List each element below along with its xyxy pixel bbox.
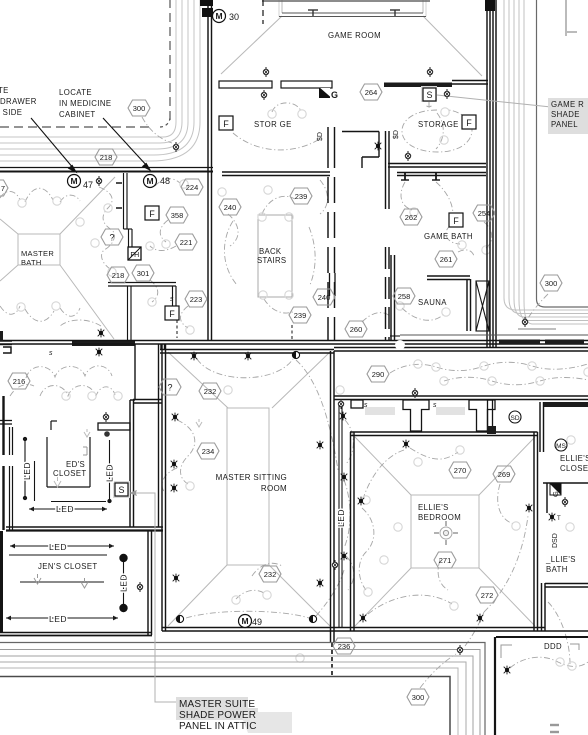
note: game room shade panel (548, 98, 588, 134)
svg-text:BATH: BATH (21, 258, 42, 267)
tag hexagon 240 upper (219, 199, 241, 215)
wire: back stairs chain (262, 196, 295, 214)
svg-text:ED'S: ED'S (66, 460, 85, 469)
jen closet hanger marks (34, 419, 202, 588)
wire: ellie top-left diag chain (364, 450, 404, 496)
game room tray ceiling (221, 0, 482, 76)
master sitting west wall (162, 344, 166, 631)
wire: bath lower arcs (60, 320, 101, 326)
svg-text:ELLIE'S: ELLIE'S (418, 503, 449, 512)
svg-text:SHADE POWER: SHADE POWER (179, 710, 256, 721)
ellie bedroom tray (355, 437, 535, 626)
tag hexagon 260 (345, 321, 367, 337)
svg-text:CABINET: CABINET (59, 110, 96, 119)
svg-text:BATH: BATH (546, 565, 568, 574)
tag hexagon 261 (435, 251, 457, 267)
tag hexagon 300 bottom (407, 689, 429, 705)
ellie bath walls (542, 583, 588, 631)
tag hexagon 358 (166, 207, 188, 223)
wire: sitting room left chain (177, 420, 195, 484)
svg-text:254: 254 (478, 209, 491, 218)
annotation arrow to M47 (31, 118, 76, 172)
svg-text:P DRAWER: P DRAWER (0, 97, 37, 106)
wire: storage-right big loop (402, 110, 472, 152)
svg-text:M: M (146, 176, 153, 186)
wire: 221 to left (150, 246, 176, 251)
svg-text:SHADE: SHADE (551, 110, 580, 119)
svg-text:F: F (466, 118, 472, 128)
master sitting east wall (331, 351, 335, 631)
wire: room216 left arcs (10, 384, 34, 396)
wire: corridor fixtures chain (345, 420, 353, 464)
wire: jen closet dashes (20, 581, 104, 583)
svg-text:LED: LED (105, 464, 115, 482)
F box game bath (449, 213, 463, 227)
meter circle M48 (144, 175, 171, 188)
ellie corridor right stub wall (540, 402, 588, 452)
ellie corridor north wall (334, 396, 588, 400)
svg-text:290: 290 (372, 370, 385, 379)
tag hexagon 264 (360, 84, 382, 100)
note: master suite shade panel (176, 697, 292, 733)
ellie closet columns (351, 400, 496, 434)
svg-text:262: 262 (405, 213, 418, 222)
wire: 260 to sauna wall (362, 313, 390, 322)
svg-text:BACK: BACK (259, 247, 282, 256)
svg-text:FH: FH (130, 252, 139, 259)
game room south header (thick) (384, 83, 452, 88)
sauna north wall (427, 276, 471, 331)
svg-text:LOCATE: LOCATE (59, 88, 92, 97)
svg-text:47: 47 (83, 180, 93, 190)
svg-text:221: 221 (180, 238, 193, 247)
wire: sitting right chain (296, 360, 338, 470)
ellie closet south wall (543, 483, 588, 513)
svg-text:240: 240 (318, 293, 331, 302)
S box ed closet shade (113, 481, 130, 498)
svg-text:272: 272 (481, 591, 494, 600)
svg-text:G: G (551, 491, 560, 497)
tag hexagon 269 (493, 466, 515, 482)
tag hexagon 234 (197, 443, 219, 459)
tag hexagon 300 right (540, 275, 562, 291)
room label: back stairs (257, 247, 286, 265)
ceiling T fixtures on game room tray (308, 10, 400, 16)
right-side shade track lines (game room east) (504, 0, 588, 329)
tag hexagon 300 medicine (128, 100, 150, 116)
meter circle M49 (239, 615, 263, 628)
jen closet south wall (0, 633, 152, 636)
top-left shade track nested lines (0, 0, 200, 161)
connector wall below sitting room (148, 531, 152, 635)
svg-text:STOR GE: STOR GE (254, 120, 292, 129)
svg-text:300: 300 (133, 104, 146, 113)
svg-text:223: 223 (190, 295, 203, 304)
tag hexagon 216 (8, 373, 30, 389)
fixture stars (junction boxes) (104, 142, 561, 675)
room label: ellie bath (545, 555, 576, 574)
svg-text:218: 218 (112, 271, 125, 280)
svg-text:264: 264 (365, 88, 378, 97)
svg-text:SAUNA: SAUNA (418, 298, 447, 307)
wire: room216 closet rod scallops (26, 366, 112, 378)
svg-text:300: 300 (412, 693, 425, 702)
master bath partition walls (108, 173, 292, 341)
ed closet inner lines (47, 421, 90, 487)
back stairs stairwell (258, 215, 292, 297)
LED corridor wall lines (339, 402, 342, 627)
note text: locate in medicine cabinet (59, 88, 111, 119)
svg-text:s: s (49, 350, 53, 357)
svg-text:IN MEDICINE: IN MEDICINE (59, 99, 111, 108)
master bath south wall thick (72, 341, 135, 346)
wiring arcs (dash-dot) (0, 103, 588, 688)
svg-text:G: G (331, 90, 338, 100)
svg-text:MASTER SITTING: MASTER SITTING (216, 473, 287, 482)
svg-text:F: F (223, 119, 229, 129)
svg-text:GAME R: GAME R (551, 100, 584, 109)
svg-text:234: 234 (202, 447, 215, 456)
svg-text:269: 269 (498, 470, 511, 479)
tag hexagon ? sitting (159, 379, 181, 395)
fixture sconces (phi symbols) (96, 67, 568, 655)
tag hexagon 262 (400, 209, 422, 225)
svg-text:358: 358 (171, 211, 184, 220)
wire: master bath big left arcs (0, 191, 20, 200)
F box master bath upper (145, 206, 159, 220)
back stairs north wall (222, 172, 330, 176)
svg-text:48: 48 (160, 176, 170, 186)
svg-text:240: 240 (224, 203, 237, 212)
wire: 240a arc (228, 214, 238, 246)
svg-text:F: F (453, 216, 459, 226)
svg-text:S: S (118, 485, 124, 495)
storage-left inner closet (342, 132, 379, 169)
svg-text:s: s (170, 296, 174, 303)
svg-text:30: 30 (229, 12, 239, 22)
bottom right room west wall (494, 637, 496, 735)
svg-text:216: 216 (13, 377, 26, 386)
wire: ellie bottom arcs (368, 595, 452, 614)
storage-right west wall (386, 131, 390, 341)
svg-text:270: 270 (454, 466, 467, 475)
meter circle M30 (213, 10, 240, 23)
bottom right header dashed (496, 636, 588, 638)
circle MS (555, 439, 567, 451)
svg-text:M: M (241, 616, 248, 626)
wire: bottom 300 hexagon to deck fixture (420, 654, 456, 688)
smoke detector circle SD (509, 411, 521, 423)
ellie ceiling fan (434, 521, 458, 545)
svg-text:236: 236 (338, 642, 351, 651)
wall A: medicine/bath north wall (0, 168, 213, 172)
wire: hexagon 261 tail (458, 250, 474, 256)
west edge walls upper closet area (0, 396, 13, 530)
game room tray bottom double line (279, 13, 426, 17)
wire: 358 area (160, 220, 168, 242)
tag hexagon 258 (393, 288, 415, 304)
svg-text:232: 232 (264, 570, 277, 579)
svg-text:N SIDE: N SIDE (0, 108, 22, 117)
wire: bottom right arcs (510, 657, 588, 668)
tag hexagon 272 (476, 587, 498, 603)
svg-text:239: 239 (295, 192, 308, 201)
svg-text:?: ? (167, 383, 172, 393)
bottom wall sitting + ellie (162, 628, 588, 632)
svg-text:F: F (169, 309, 175, 319)
right-side dark shade line (537, 0, 588, 307)
west edge wall bits at bath (0, 341, 12, 353)
wire: game bath arcs (401, 182, 412, 210)
ed closet shelf bracket (98, 423, 130, 430)
upper band wall y=338/341 right part (390, 335, 588, 344)
tag hexagon 221 (175, 234, 197, 250)
wire: medicine cabinet hexagon 300 to fixture (142, 117, 172, 143)
svg-text:239: 239 (294, 311, 307, 320)
svg-text:GAME BATH: GAME BATH (424, 232, 473, 241)
room label: master sitting room (216, 473, 287, 493)
ghost outlet circles (17, 108, 588, 670)
svg-text:232: 232 (204, 387, 217, 396)
wire: sauna arc (402, 308, 444, 320)
tag hexagon 232 lower (259, 566, 281, 582)
svg-text:271: 271 (439, 556, 452, 565)
room label: ed closet (53, 460, 87, 478)
wire: storage-left loop (272, 103, 301, 112)
connector below sitting east wall (331, 631, 335, 676)
sauna heater chase X-box (476, 281, 489, 331)
sauna / hall west wall (391, 255, 395, 341)
master bath tray (0, 177, 115, 339)
svg-text:MS: MS (556, 443, 566, 450)
jen closet west wall (0, 531, 3, 633)
svg-text:LED: LED (56, 504, 74, 514)
svg-text:LED: LED (22, 462, 32, 480)
ellie north wall (350, 432, 538, 436)
wall vertical main x=210 (208, 0, 212, 341)
master sitting tray (168, 352, 330, 626)
svg-text:49: 49 (252, 617, 262, 627)
svg-text:224: 224 (186, 183, 199, 192)
far right window edge (566, 0, 577, 36)
storage-left / back stairs west wall x=331 (328, 127, 335, 341)
svg-text:DDD: DDD (544, 642, 562, 651)
wire: right of stairs wall (320, 180, 328, 214)
east building wall double pair (487, 0, 496, 347)
ellie west wall (351, 432, 355, 631)
wire: near 301/223 (150, 280, 158, 302)
svg-text:GAME ROOM: GAME ROOM (328, 31, 381, 40)
tag hexagon 239 lower (289, 307, 311, 323)
tag hexagon 270 (449, 462, 471, 478)
G marker game room (319, 88, 338, 100)
tag hexagon 236 (333, 638, 355, 654)
svg-text:ELLIE'S: ELLIE'S (560, 454, 588, 463)
svg-text:DSD: DSD (552, 533, 559, 548)
ellie east wall (534, 432, 538, 631)
svg-text:STAIRS: STAIRS (257, 256, 286, 265)
svg-text:JEN'S CLOSET: JEN'S CLOSET (38, 562, 98, 571)
F box master bath lower (165, 306, 179, 320)
highlight rects ellie closets (365, 407, 395, 415)
svg-text:CLOSET: CLOSET (53, 469, 87, 478)
wire: corridor wavy line 2 (444, 377, 588, 385)
svg-text:LED: LED (49, 542, 67, 552)
tag hexagon 271 (434, 552, 456, 568)
game bath north wall (397, 172, 486, 180)
svg-text:M: M (70, 176, 77, 186)
LED labels (22, 462, 346, 624)
closet block south wall thick (6, 527, 163, 531)
svg-text:PANEL IN ATTIC: PANEL IN ATTIC (179, 721, 257, 732)
svg-text:PANEL: PANEL (551, 120, 578, 129)
svg-text:M: M (215, 11, 222, 21)
leader line: master suite shade panel (129, 493, 177, 702)
svg-text:MASTER: MASTER (21, 249, 54, 258)
svg-text:SD: SD (510, 415, 519, 422)
svg-text:7: 7 (1, 184, 5, 193)
svg-text:258: 258 (398, 292, 411, 301)
fixture half circles on bottom wall (176, 615, 316, 622)
F hatched box (128, 247, 141, 260)
tag hexagon 301 (132, 265, 154, 281)
room label: ellie closet (560, 454, 588, 473)
svg-text:LED: LED (49, 614, 67, 624)
svg-text:LED: LED (336, 509, 346, 527)
meter circle M47 (68, 175, 94, 191)
F box storage-right (462, 115, 476, 129)
svg-text:LED: LED (119, 574, 129, 592)
S box game room shade (421, 86, 437, 102)
svg-text:MASTER SUITE: MASTER SUITE (179, 699, 255, 710)
tag hexagon 232 upper (199, 383, 221, 399)
jen closet LED dots (119, 554, 127, 612)
top-left dark dashed shade line (0, 0, 170, 127)
wire: M48 to 224 (155, 179, 180, 186)
tag hexagon 218 lower (107, 267, 129, 283)
tag hexagon 290 (367, 366, 389, 382)
shade panel boxes top-left of game room (200, 0, 213, 17)
svg-text:260: 260 (350, 325, 363, 334)
tag hexagon 223 (185, 291, 207, 307)
svg-text:218: 218 (100, 153, 113, 162)
F box storage-left (219, 116, 233, 130)
svg-text:CLOSE: CLOSE (560, 464, 588, 473)
tag hexagon 218 upper (95, 149, 117, 165)
svg-text:$D: $D (393, 130, 400, 139)
storage-right south wall (388, 164, 486, 168)
G marker ellie (550, 484, 561, 497)
room label: master bath (21, 249, 54, 267)
note text: drawer left (clipped) (0, 86, 37, 117)
ed closet block column wall (130, 400, 162, 528)
game room south wall segments (219, 81, 332, 88)
tag hexagon 224 (181, 179, 203, 195)
south band wall y=348/351 full width (0, 341, 588, 354)
wire: sitting room top arc (197, 359, 293, 378)
tag hexagon 240 lower (313, 289, 335, 305)
svg-text:261: 261 (440, 255, 453, 264)
wire: sitting bottom arcs (186, 611, 309, 618)
svg-text:$D: $D (317, 132, 324, 141)
annotation arrow to M48 (103, 118, 150, 170)
svg-text:ROOM: ROOM (261, 484, 287, 493)
game room top wall (262, 0, 430, 2)
svg-text:?: ? (109, 233, 114, 243)
leader line: game room shade panel (437, 95, 551, 107)
tag hexagon ? bath (101, 229, 123, 245)
svg-text:301: 301 (137, 269, 150, 278)
leader arrow head at S box (129, 490, 137, 496)
svg-text:S: S (426, 90, 432, 100)
bottom right gray stack lines (550, 725, 559, 732)
svg-text:BEDROOM: BEDROOM (418, 513, 461, 522)
tag hexagon 239 upper (290, 188, 312, 204)
svg-text:F: F (149, 209, 155, 219)
wire: ellie top arc right (410, 448, 458, 459)
wire: right 300 hexagon tail (528, 294, 548, 318)
deck / terrace nested edge lines (0, 643, 485, 735)
room label: ellie bedroom (418, 503, 461, 522)
wire: corridor wavy line 1 (390, 362, 588, 373)
closet LED strip lines with arrows (6, 437, 124, 620)
svg-text:TE: TE (0, 86, 9, 95)
tag hexagon 254 (473, 205, 495, 221)
wire: master bath wall chain (99, 187, 114, 270)
svg-text:STORAGE: STORAGE (418, 120, 459, 129)
svg-text:T: T (557, 516, 561, 522)
svg-text:300: 300 (545, 279, 558, 288)
svg-text:_LLIE'S: _LLIE'S (545, 555, 576, 564)
